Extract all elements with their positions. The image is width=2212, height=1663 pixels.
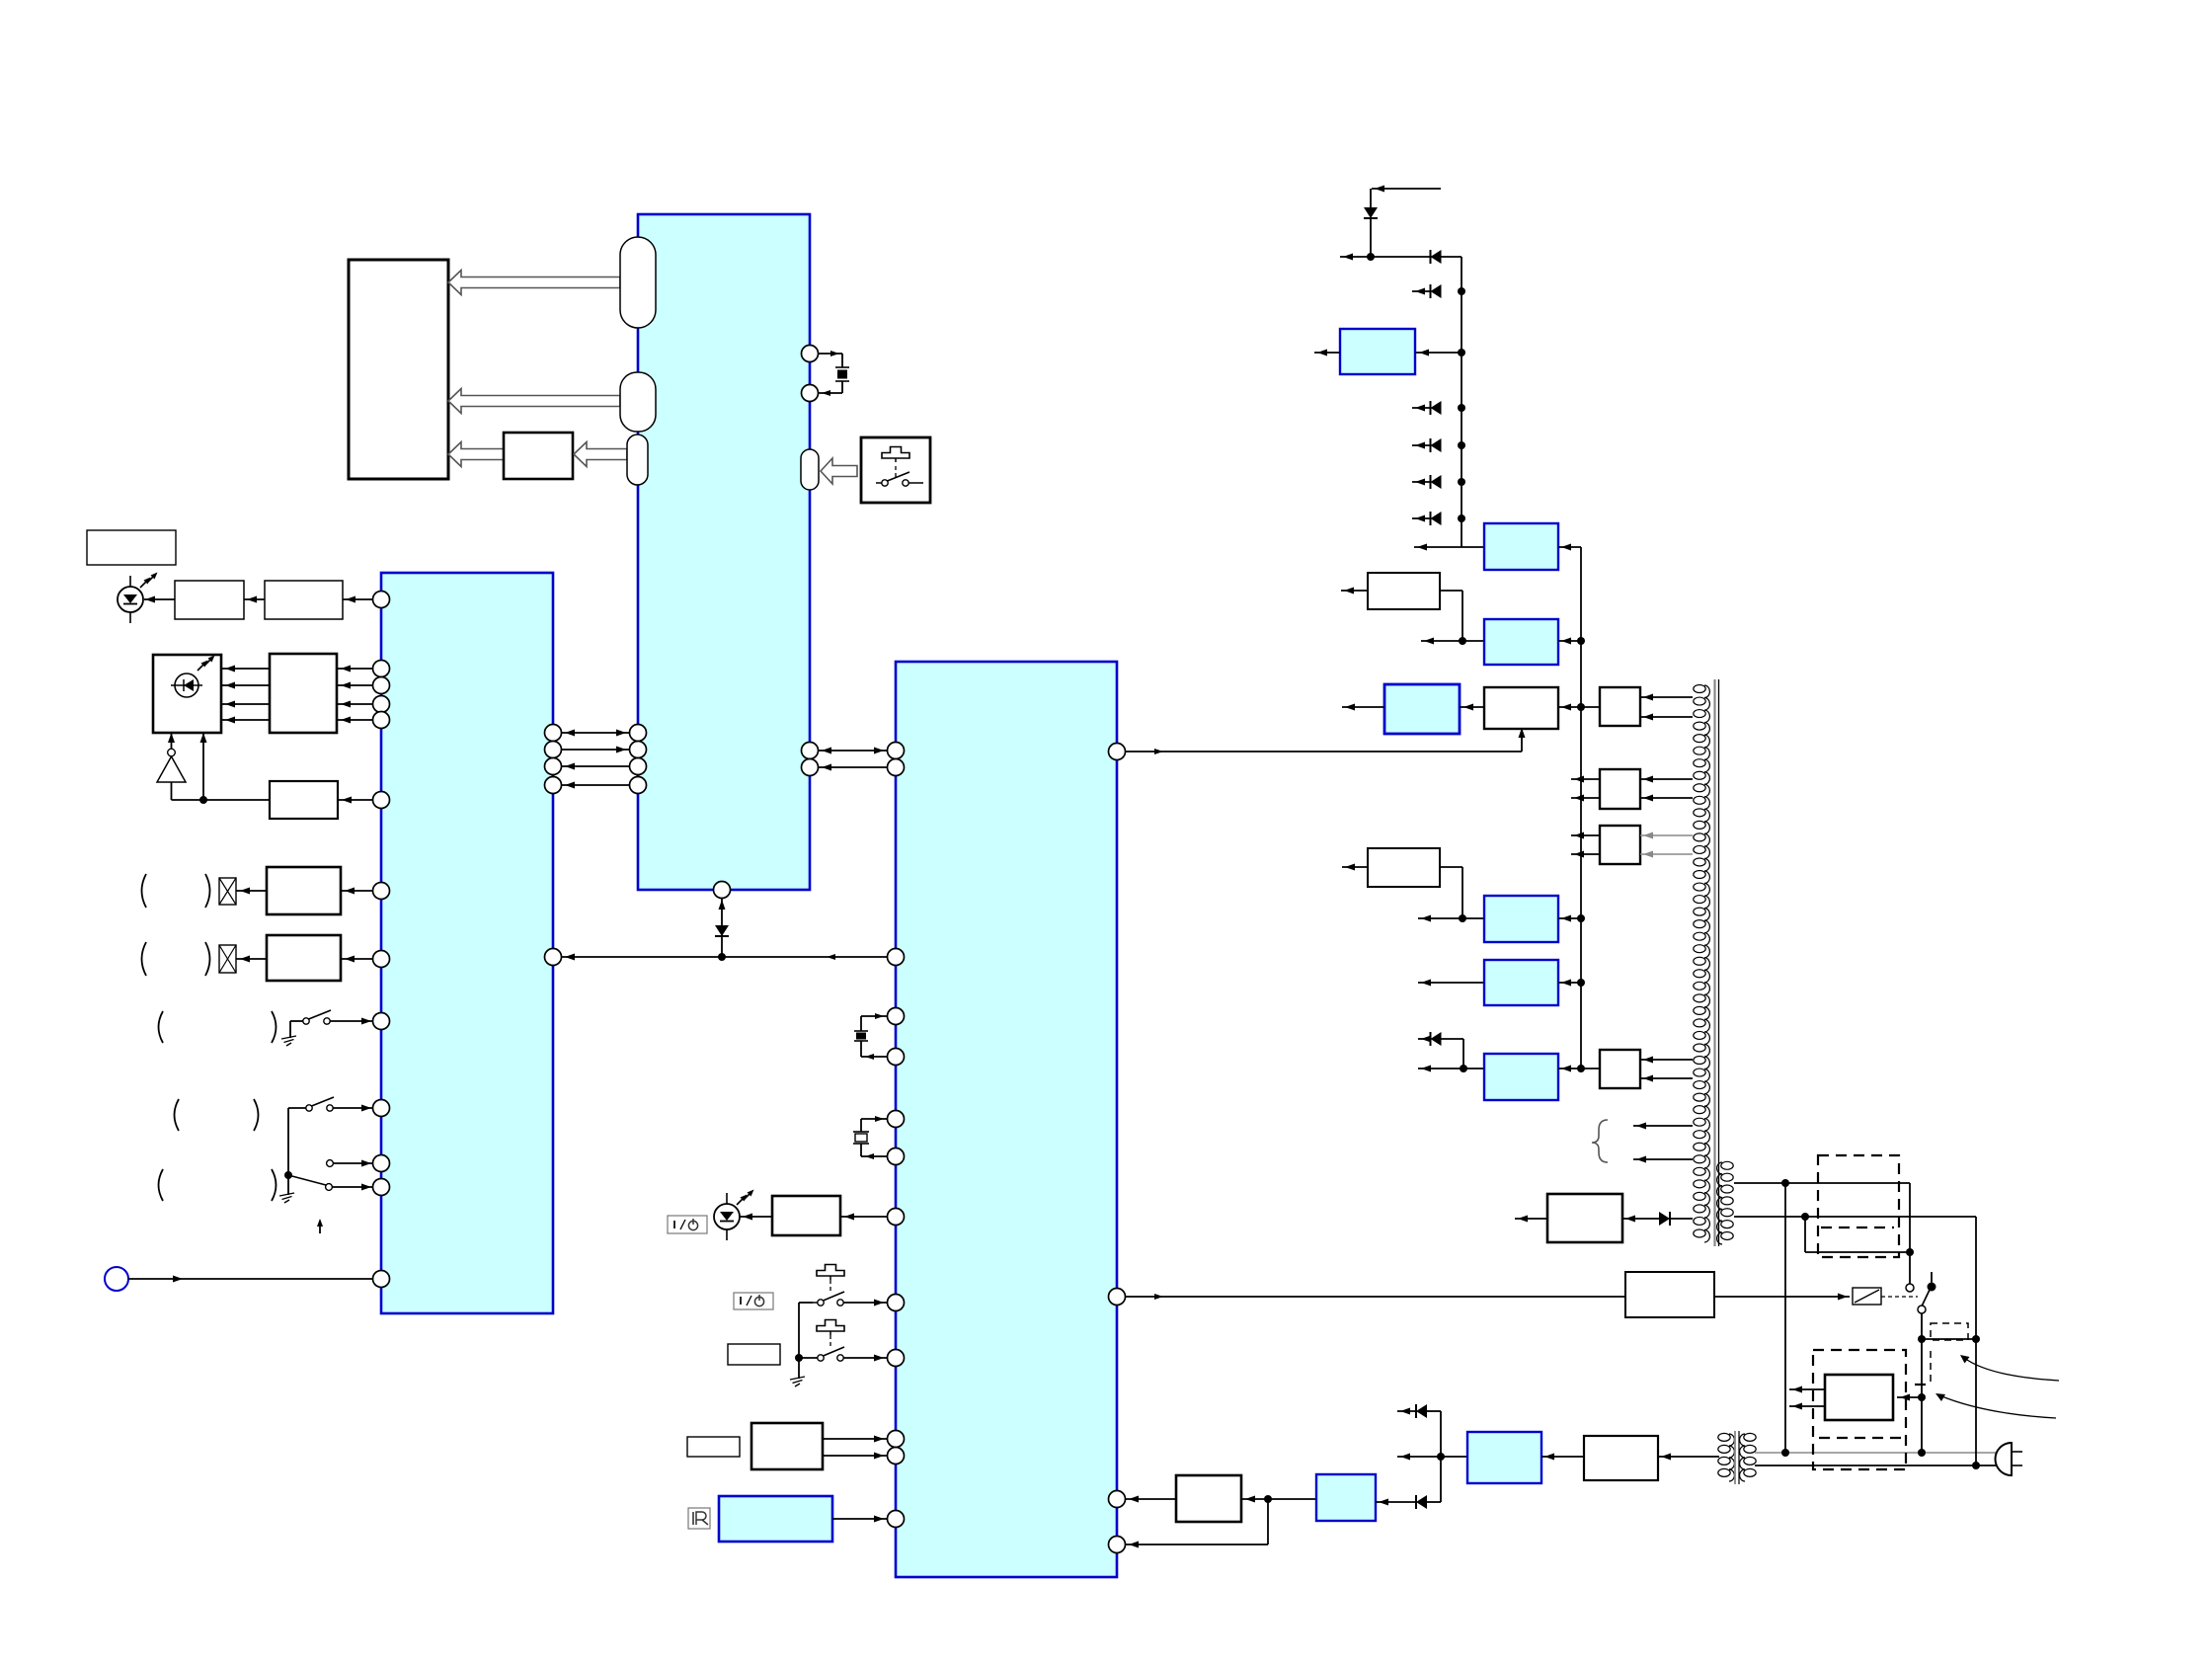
resonator X1 [819,351,850,396]
voltage selector dashed box [1818,1155,1899,1257]
rect box V2 [1600,769,1640,809]
wire pin to rectI [840,1214,888,1221]
pin IC2 bottom [714,882,731,899]
regulator cyan Q [1340,329,1415,374]
bus wire b4 [562,782,630,789]
wire pinC1 [337,666,373,673]
wire W2 left [1342,704,1384,711]
wire V2 out2 [1571,795,1600,802]
detect rect S [1368,573,1440,609]
AC filter dashed box [1813,1350,1906,1469]
power LED D201 [714,1190,754,1241]
transformer T1 secondary [1694,685,1710,1242]
APC block D [270,781,338,819]
LED D101 indicator [118,573,158,624]
annotation arrow 1 [1960,1355,2059,1381]
wire photo2 [221,682,270,689]
bus vertical [1461,257,1462,547]
wire W2-U [1460,704,1484,711]
row649 [1421,637,1484,645]
wire S right [1440,591,1462,641]
pin X-tal a [802,346,819,362]
wire switch down [1918,1313,1926,1343]
wire T2 black [1755,1465,1998,1466]
bus wire b2 [562,747,630,753]
wire S left [1341,588,1368,594]
pin C2 [373,677,390,694]
regulator cyan W2 [1384,684,1460,734]
power detect rect L [1625,1272,1714,1317]
pin res2 a [888,1008,905,1025]
pin S2 [373,1100,390,1117]
transformer T1 core [1715,679,1719,1246]
rectifier rect P [1584,1436,1658,1480]
wire X2 [236,956,267,963]
line filter rect Z [1825,1375,1893,1420]
annotation arrow 2 [1935,1393,2056,1418]
pin relay drive [1109,1289,1126,1306]
wire PS control [1126,726,1526,754]
wire J1 to pin [128,1276,373,1283]
wire IR to pin [832,1516,888,1523]
wire T2 grey [1755,1452,1997,1454]
pins cbus left [802,743,819,776]
diode row 488 [1412,475,1465,489]
connector J1 (blue circle) [105,1267,128,1291]
wire photo3 [221,701,270,708]
pin J1 [888,1431,905,1448]
mechanism block J [751,1423,823,1469]
AC plug [1996,1443,2022,1475]
fuse tick [1915,1384,1926,1386]
wire S2 to pin [333,1105,373,1112]
power sense rect Y [1547,1194,1622,1242]
wire fuse down [1918,1339,1926,1453]
port pill P3 [627,435,648,485]
diode row 295 [1412,284,1465,298]
pin IC1 y969 [545,949,562,966]
regulator cyan O [1467,1432,1541,1483]
pin IC3 y969 [888,949,905,966]
speaker jack X2 [219,945,236,973]
LED driver block I [772,1196,840,1235]
wire V2 tap2 [1640,795,1693,802]
diode D4 down [1364,207,1378,218]
wire Y diode [1622,1212,1693,1226]
pin C3 [373,696,390,713]
node PS junction [1437,1453,1445,1461]
port pill P2 [620,372,656,432]
relay dashed link [1881,1296,1918,1298]
switch S3 common [279,1171,326,1203]
IC3 main micom / power block (right) [896,662,1117,1577]
switch S3 throw2 [326,1184,373,1191]
wire pinC2 [337,682,373,689]
inverter buffer [157,749,186,782]
wire O-P [1541,1454,1584,1461]
IC1 system-control/servo block (left) [381,573,553,1313]
pin X-tal b [802,385,819,402]
small up arrow mark [317,1219,323,1233]
label IR logo [688,1508,710,1529]
wire pin to E [341,888,373,895]
switch blade [1920,1290,1930,1310]
pin J1 [373,1271,390,1288]
wire Z out1 [1789,1386,1825,1393]
pin F [373,951,390,968]
regulator cyan X3r [1484,1054,1558,1100]
wire X3 right [1558,1065,1600,1072]
parens row2 [142,942,210,976]
wire top feed [1371,186,1441,258]
wire heater tap1 [1633,1123,1693,1130]
bus wire b3 [562,763,630,770]
node black a [1972,1462,1980,1469]
wire V1 tap2 [1640,714,1693,721]
wire junction down [1126,1499,1269,1548]
wire P-T2 [1658,1454,1719,1461]
pins bus right [630,725,647,794]
wire prim2 [1734,1213,1976,1339]
pin E [373,883,390,900]
wire R right [1558,544,1581,1069]
wire Q left [1314,350,1340,356]
dashed stub [1930,1351,1932,1385]
row930 [1418,914,1484,922]
node bus top [1367,253,1375,261]
parens row4 [175,1099,259,1131]
wire J pin2 [823,1453,888,1460]
IC2 mechanism controller block (middle) [638,214,810,890]
pin APC [373,792,390,809]
detect rect W [1368,848,1440,887]
parens row5 [159,1169,276,1201]
regulator cyan N [1316,1474,1376,1521]
wire N diode [1376,1457,1441,1509]
amp block F [267,935,341,981]
wire pin to rectD [338,797,373,804]
key block H [504,433,573,479]
wire V3 out1 [1571,832,1600,839]
wire rectD feedback [172,782,271,800]
wire main bus y969 [562,954,888,961]
pins cbus right [888,743,905,776]
brace group [1592,1120,1608,1162]
wire V3 tap1 grey [1640,832,1693,839]
wire pinC3 [337,701,373,708]
regulator cyan Rr [1484,523,1558,570]
rectifier rect U [1484,687,1558,729]
wire X1 [236,888,267,895]
bus wire c1 [819,748,888,754]
diode upper branch [1397,1404,1441,1457]
label eject [728,1344,780,1365]
block arrow bus1 [448,271,620,295]
diode row 525 [1412,512,1465,525]
switch contact b [1928,1272,1936,1292]
diode D5 [1431,250,1442,264]
port pill P1 [620,237,656,328]
wire Q right [1415,349,1465,356]
wire PS out left [1397,1454,1441,1461]
diode row 451 [1412,438,1465,452]
block arrow bus3 [448,442,504,467]
display assy block G [349,260,448,479]
label I/O power2 [734,1293,773,1309]
wire photo1 [221,666,270,673]
wire X2 right [1558,979,1585,987]
wire selector down [1975,1339,1977,1465]
pin LED power [888,1209,905,1226]
regulator cyan X2r [1484,960,1558,1005]
driver block A [175,581,244,619]
small dashed box [1931,1323,1968,1340]
selector divider dashed [1821,1227,1894,1228]
transformer T2 [1718,1431,1756,1484]
wire V2 out1 [1571,776,1600,783]
pin S3a [373,1155,390,1172]
amp block E [267,867,341,914]
diode row 413 [1412,401,1465,415]
wire W left [1342,864,1368,871]
IR receiver block [719,1496,832,1542]
wire junction to photobox [199,733,207,804]
reset block M [1176,1475,1241,1522]
parens row1 [142,874,210,908]
wire T right [1558,637,1585,645]
wire relay drive [1126,1294,1626,1300]
wire Z right [1897,1394,1922,1401]
regulator cyan X1r [1484,896,1558,942]
row995 [1418,980,1484,987]
headphone jack X1 [219,878,236,905]
wire switch-selector [1922,1335,1980,1343]
pin LED drive [373,592,390,608]
wire sense vertical [1784,1183,1786,1453]
wire prim branch [1805,1217,1914,1256]
pin unreg a [1109,1491,1126,1508]
pin C1 [373,661,390,677]
wire PS to O [1441,1456,1467,1458]
port pill P4 [801,449,819,490]
block arrow bus4 [574,442,627,467]
wire V4 tap1 [1640,1057,1693,1064]
driver block B [265,581,343,619]
node junction main [718,953,726,961]
wire L to relay [1714,1294,1850,1301]
rect box V4 [1600,1050,1640,1088]
label I/O power1 [668,1216,707,1233]
switch S1 [281,1010,331,1046]
pin S3b [373,1179,390,1196]
parens row3 [159,1011,276,1043]
bus wire b1 [562,730,630,737]
power tact switch [799,1265,888,1359]
wire inverter to photobox [168,733,175,749]
pin xtal a [888,1111,905,1128]
wire Y left [1515,1216,1547,1223]
wire V1 tap1 [1640,694,1693,701]
label box (top-left) [87,530,176,565]
label box K [687,1437,740,1457]
wire rectI to LED [740,1214,772,1221]
wire V2 tap1 [1640,776,1693,783]
diode row 1052 [1418,1032,1463,1069]
wire Z out2 [1789,1403,1825,1410]
pin SW power [888,1295,905,1311]
crystal X3 [853,1116,888,1159]
pin PS control [1109,744,1126,760]
wire M junction [1241,1495,1316,1503]
block arrow bus2 [448,389,620,414]
wire IC2-bot diode [715,899,729,958]
wire W right [1440,867,1462,918]
resonator X2 [854,1013,888,1060]
wire J pin1 [823,1436,888,1443]
rect box V1 [1600,687,1640,726]
wire row554 [1414,544,1484,551]
pin res2 b [888,1049,905,1066]
wire rectB to rectA [244,596,265,603]
wire prim1 [1734,1179,1910,1252]
wire V3 tap2 grey [1640,851,1693,858]
wire arrow to LED [144,596,175,603]
switch contact c [1918,1306,1926,1313]
rect box V3 [1600,826,1640,864]
wire photo4 [221,717,270,724]
wire S1 to pin [331,1018,373,1025]
row1082 [1418,1065,1484,1072]
block arrow power-key [821,458,857,484]
wire V3 out2 [1571,851,1600,858]
photo detector box [153,655,221,733]
wire row260 [1340,254,1461,261]
wire pin-M [1126,1496,1177,1503]
wire heater tap2 [1633,1156,1693,1163]
pins bus left [545,725,562,794]
regulator cyan T [1484,619,1558,665]
wire U right [1558,703,1600,711]
power switch box [861,437,930,503]
wire pin to F [341,956,373,963]
pin J2 [888,1448,905,1465]
pin IR [888,1511,905,1528]
wire V4 tap2 [1640,1075,1693,1082]
wire pinC4 [337,717,373,724]
eject tact switch [790,1320,888,1387]
switch contact a [1906,1252,1914,1292]
switch S3 throw1 [327,1160,373,1167]
wire X1 right [1558,914,1585,922]
pin xtal b [888,1148,905,1165]
bus wire c2 [819,764,888,771]
pin S1 [373,1013,390,1030]
relay coil [1853,1288,1881,1305]
pin C4 [373,712,390,729]
pin unreg b [1109,1537,1126,1553]
transformer T1 primary [1717,1161,1734,1244]
node grey a [1781,1449,1789,1457]
laser driver block C [270,654,337,733]
wire pin to rectB [343,596,373,603]
pin SW eject [888,1350,905,1367]
filter divider dashed [1819,1437,1904,1439]
node grey b [1918,1449,1926,1457]
switch S2 [288,1097,334,1175]
